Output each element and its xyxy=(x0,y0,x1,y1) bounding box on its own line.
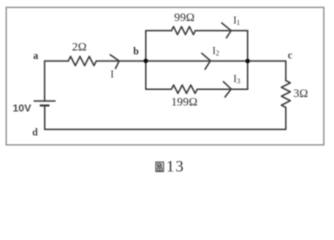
arrow current I3 xyxy=(223,82,231,97)
svg-text:a: a xyxy=(33,51,38,62)
wire a to 2-ohm resistor xyxy=(45,60,69,62)
svg-text:I: I xyxy=(111,70,114,81)
arrow current I xyxy=(110,55,119,69)
svg-text:I3: I3 xyxy=(233,74,240,86)
resistor R1 2ohm xyxy=(68,56,96,65)
wire node b up to top branch xyxy=(145,31,147,61)
node b junction dot xyxy=(144,59,149,64)
svg-text:b: b xyxy=(133,47,139,58)
svg-text:99Ω: 99Ω xyxy=(174,10,195,24)
wire bottom branch right segment xyxy=(197,88,247,90)
arrow current I2 xyxy=(202,53,211,69)
svg-text:d: d xyxy=(32,128,38,139)
wire a corner down to battery plus xyxy=(44,61,46,101)
wire bottom rail xyxy=(45,128,286,130)
wire top branch down to node xyxy=(247,31,249,61)
wire middle branch b to c xyxy=(146,60,286,62)
resistor R4 3ohm xyxy=(281,81,290,108)
svg-text:I1: I1 xyxy=(233,16,240,28)
svg-text:13: 13 xyxy=(166,158,184,175)
svg-text:2Ω: 2Ω xyxy=(72,39,87,53)
svg-text:I2: I2 xyxy=(212,46,219,58)
node junction dot right of parallel branches xyxy=(245,59,250,64)
svg-text:c: c xyxy=(288,51,293,62)
wire bottom branch left segment xyxy=(146,88,172,90)
svg-text:3Ω: 3Ω xyxy=(293,86,308,100)
svg-text:199Ω: 199Ω xyxy=(171,95,198,109)
wire c corner down to 3-ohm resistor xyxy=(285,61,287,81)
caption figure-13 CJK glyph (drawn) xyxy=(156,162,164,172)
wire 3-ohm down to bottom rail xyxy=(285,107,287,129)
battery B1 10V plus plate xyxy=(34,100,56,102)
arrow current I1 xyxy=(222,23,231,38)
wire 2-ohm to node b xyxy=(96,60,146,62)
border frame (figure box) xyxy=(6,7,324,145)
wire d corner up to battery minus xyxy=(44,105,46,129)
svg-text:10V: 10V xyxy=(13,102,32,114)
resistor R2 99ohm xyxy=(172,27,196,35)
wire top branch left segment xyxy=(146,30,172,32)
wire node b down to bottom branch xyxy=(145,61,147,89)
wire bottom branch up to node xyxy=(247,61,249,89)
battery B1 10V minus plate xyxy=(40,104,50,106)
wire top branch right segment xyxy=(195,30,247,32)
resistor R3 199ohm xyxy=(171,85,197,93)
